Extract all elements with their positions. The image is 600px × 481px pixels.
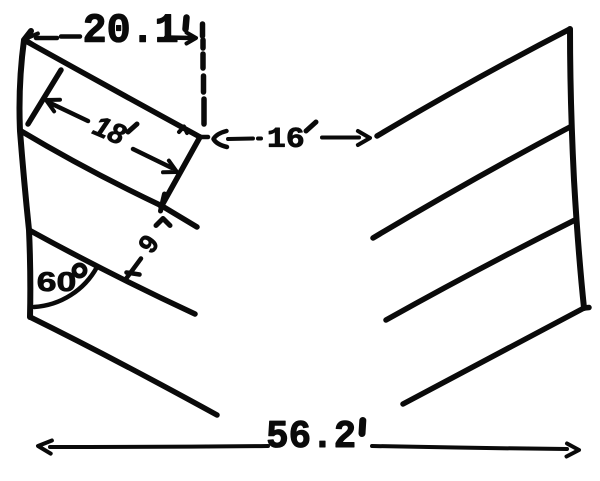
dimension 56.2 right arrowhead: [567, 444, 580, 457]
junction nub: [201, 135, 208, 140]
dimension 9 bottom arrowhead barb: [127, 273, 140, 275]
dimension 56.2 shaft right: [372, 446, 567, 449]
stall line L3 (60-degree line): [29, 230, 195, 314]
right stall line R3: [386, 220, 575, 320]
label 60 degrees: [38, 272, 75, 291]
left curb boundary line: [20, 31, 32, 317]
stall line L4 (bottom boundary): [30, 317, 217, 415]
dimension 16 right arrowhead: [358, 131, 370, 145]
right stall line R1 (top): [377, 29, 570, 136]
dimension 18 right arrowhead: [163, 161, 177, 173]
dimension 20.1 shaft: [36, 37, 80, 39]
hand prime of 9': [156, 219, 170, 226]
label 20.1: [85, 14, 177, 42]
tick at end of L1: [179, 127, 187, 134]
dimension 18 right shaft: [133, 149, 172, 168]
dimension 20.1 right arrowhead: [187, 33, 197, 44]
dimension 9 top shaft crossing L2: [161, 194, 165, 211]
stall right edge: [161, 137, 200, 207]
dimension 16 left arrowhead: [214, 131, 228, 147]
hand prime of 16': [306, 122, 316, 131]
dimension 20.1 right mini shaft: [166, 35, 193, 40]
dashed extension line: [203, 24, 205, 124]
right stall line R2: [373, 127, 570, 238]
dimension 16 right shaft: [322, 136, 359, 140]
label 56.2: [268, 421, 354, 448]
apostrophe of 56.2': [359, 421, 367, 434]
label 16: [269, 128, 303, 148]
degree ring of 60 label: [74, 265, 85, 276]
dimension 56.2 left arrowhead: [38, 441, 52, 454]
apostrophe of 20.1': [186, 18, 187, 30]
stall line L2: [21, 131, 197, 227]
right stall line R4 (bottom): [403, 308, 589, 405]
dimension 16 left shaft: [228, 137, 253, 142]
perpendicular tick segment P1: [28, 70, 61, 124]
hand prime of 18': [128, 124, 137, 132]
label 18 (handwritten, rotated): [91, 115, 128, 146]
60 degree arc: [34, 267, 97, 307]
dimension 20.1 left arrow: [25, 34, 38, 47]
dimension 9 bottom shaft: [126, 259, 142, 280]
dot dash: [258, 137, 261, 141]
dimension 18 left shaft: [48, 102, 88, 121]
stall line L1 (top): [24, 40, 200, 137]
right curb boundary line: [570, 29, 584, 308]
label 9 (handwritten, rotated): [137, 233, 159, 254]
dimension 18 left arrowhead: [46, 100, 60, 112]
dimension 56.2 shaft left: [50, 446, 268, 447]
